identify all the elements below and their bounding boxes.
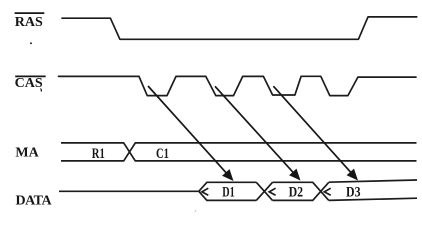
svg-text:DATA: DATA — [16, 194, 53, 209]
svg-text:R1: R1 — [92, 146, 105, 162]
wire RAS waveform — [62, 17, 417, 39]
svg-text:D3: D3 — [346, 184, 361, 200]
svg-text:D2: D2 — [289, 184, 304, 200]
arrow from CAS edge 3 to D3 — [273, 86, 358, 180]
signal label CAS overbar — [15, 75, 46, 77]
svg-text:C1: C1 — [156, 146, 169, 162]
wire DATA idle line — [59, 190, 199, 192]
data valid window D2 outline — [273, 182, 329, 200]
cedilla mark under S — [40, 89, 43, 92]
open bracket inside D1 — [202, 188, 208, 195]
svg-text:MA: MA — [15, 146, 39, 161]
svg-text:CAS: CAS — [15, 76, 43, 91]
stray dot — [30, 42, 32, 44]
svg-text:D1: D1 — [222, 184, 235, 200]
open bracket inside D3 — [324, 188, 330, 195]
arrow from CAS edge 2 to D2 — [215, 86, 301, 180]
open bracket inside D2 — [269, 188, 275, 195]
svg-text:RAS: RAS — [15, 15, 43, 30]
faint scan speck — [195, 210, 197, 212]
bus MA bottom line — [61, 143, 417, 161]
signal label RAS overbar — [15, 12, 45, 14]
data valid window D3 outline (open ended right) — [329, 180, 417, 200]
wire CAS waveform — [59, 76, 417, 95]
data valid window D1 outline — [199, 182, 273, 200]
arrow from CAS edge 1 to D1 — [148, 86, 234, 181]
bus MA top line — [61, 143, 417, 161]
